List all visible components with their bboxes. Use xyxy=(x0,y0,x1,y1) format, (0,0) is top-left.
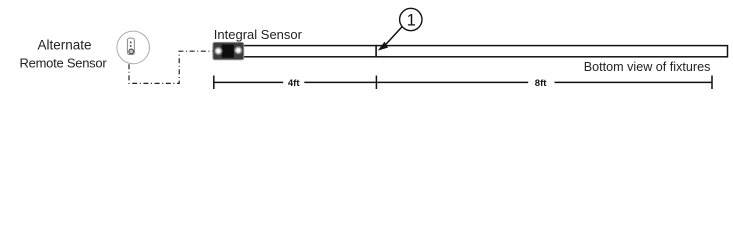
callout arrowhead xyxy=(378,42,388,51)
dimension: 4ft section xyxy=(214,76,377,90)
svg-text:Bottom view of fixtures: Bottom view of fixtures xyxy=(584,60,711,74)
svg-text:8ft: 8ft xyxy=(535,78,547,89)
remote sensor icon (circle with sensor device) xyxy=(117,31,150,64)
wire: dash-dot leader from remote sensor to fixture xyxy=(129,51,213,83)
fixture bar (bottom view of fixtures) xyxy=(214,46,728,57)
integral sensor block xyxy=(213,42,244,59)
svg-text:Remote Sensor: Remote Sensor xyxy=(20,56,108,71)
label: Alternate Remote Sensor xyxy=(20,38,108,71)
svg-text:4ft: 4ft xyxy=(288,78,300,89)
junction line between 4ft and 8ft fixtures xyxy=(375,45,377,58)
dimension: 8ft section xyxy=(377,76,712,90)
svg-text:Alternate: Alternate xyxy=(37,38,91,53)
callout circle 1 xyxy=(400,8,422,30)
svg-text:Integral Sensor: Integral Sensor xyxy=(214,27,303,42)
callout leader line xyxy=(386,26,403,45)
svg-text:1: 1 xyxy=(407,11,416,29)
